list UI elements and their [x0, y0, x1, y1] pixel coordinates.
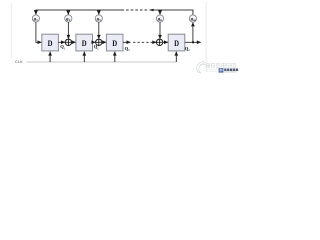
wire: FF3 Q out arrow — [123, 41, 130, 43]
wire: top feedback line solid left span — [36, 9, 122, 11]
xor gate X1 — [65, 39, 71, 45]
wire: g1 output down to node A then into FF1 D input, arrow — [36, 22, 42, 42]
wire: FF1 Q out to XOR1 — [58, 41, 65, 43]
watermark gray outline glyph row — [206, 63, 235, 67]
wire: gn output down into xor gate X3, arrow — [159, 22, 161, 39]
svg-text:D: D — [112, 39, 117, 48]
wire: clock distribution line — [27, 61, 177, 63]
watermark light bottom text — [224, 71, 237, 73]
flip-flop FF3 — [106, 34, 123, 51]
multiplier g2 — [65, 15, 72, 22]
wire: feedback tap drop into multiplier gn, down arrow — [159, 10, 161, 15]
faint page fold line left — [11, 3, 12, 58]
xor gate X3 — [156, 39, 162, 45]
multiplier g1 — [32, 15, 39, 22]
wire: XOR3 to FF4 input — [163, 41, 168, 43]
svg-text:CLK: CLK — [15, 60, 23, 64]
wire: clock stub up into FF3 — [114, 52, 116, 62]
multiplier gm feedback tap — [189, 15, 196, 22]
wire: clock stub up into FF2 — [83, 52, 85, 62]
wire: output junction node up into multiplier gm, arrow — [192, 23, 194, 43]
label Q1 — [60, 44, 65, 50]
watermark tiny light text line — [207, 70, 217, 71]
xor gate X2 — [96, 39, 102, 45]
wire: XOR1 to FF2 input — [72, 41, 76, 43]
svg-text:D: D — [174, 39, 179, 48]
watermark blue badge — [219, 68, 224, 72]
svg-text:D: D — [48, 39, 53, 48]
wire: FF4 output to external arrow — [185, 41, 201, 43]
multiplier gn — [156, 15, 163, 22]
wire: XOR2 to FF3 input — [102, 41, 106, 43]
wire: FF2 Q out to XOR2 — [93, 41, 96, 43]
multiplier g3 — [95, 15, 102, 22]
wire: g3 output down into xor gate X2, arrow — [98, 22, 100, 39]
wire: clock stub up into FF1 — [49, 52, 51, 62]
wire: dashed continuation in middle row — [133, 41, 152, 43]
flip-flop FF2 — [76, 34, 93, 51]
faint page fold line right — [205, 2, 207, 72]
wire: g2 output down into xor gate X1, arrow — [67, 22, 69, 39]
wire: feedback tap drop into multiplier g2, down arrow — [67, 10, 69, 15]
watermark dark text glyphs — [224, 69, 238, 72]
wire: clock stub up into FF4 — [175, 52, 177, 62]
flip-flop FF4 — [168, 34, 185, 51]
background — [0, 0, 240, 77]
label Q3 — [125, 46, 130, 52]
label Qn — [185, 46, 190, 52]
wire: top feedback line solid right span — [153, 9, 193, 11]
wire: top feedback line dashed span — [122, 9, 149, 11]
wire: feedback line left corner drop into multiplier g1, down arrow — [35, 10, 37, 15]
label Q2 — [94, 44, 99, 50]
svg-text:D: D — [82, 39, 87, 48]
wire: multiplier gm top up to feedback line right corner — [192, 10, 194, 15]
wire: dashed row arrow into XOR3 — [152, 41, 156, 43]
flip-flop FF1 — [42, 34, 59, 51]
junction node on output wire — [192, 41, 194, 43]
watermark swirl logo — [197, 61, 206, 73]
arrowhead on feedback line pointing left — [149, 9, 154, 12]
wire: feedback tap drop into multiplier g3, down arrow — [98, 10, 100, 15]
